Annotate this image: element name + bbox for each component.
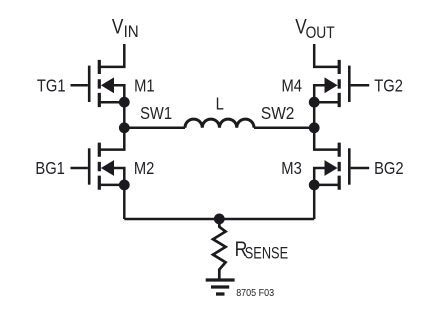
svg-text:SENSE: SENSE	[245, 245, 288, 263]
wire SW1 to inductor	[124, 127, 185, 130]
junction dot M4 source	[309, 97, 320, 108]
label RSENSE	[235, 237, 289, 263]
node VOUT label	[295, 15, 335, 43]
ground	[206, 280, 235, 294]
svg-text:M1: M1	[134, 76, 154, 96]
wire SW2 to M3 drain	[314, 128, 339, 150]
svg-text:SW1: SW1	[140, 104, 172, 124]
svg-text:TG2: TG2	[374, 76, 403, 96]
junction dot SW2	[309, 122, 320, 133]
svg-text:IN: IN	[124, 24, 139, 42]
svg-text:BG2: BG2	[374, 159, 404, 179]
wire VIN stub to M1 drain	[99, 44, 124, 67]
wire M1 source to SW1	[123, 102, 126, 128]
svg-text:BG1: BG1	[35, 159, 65, 179]
junction dot SW1	[119, 122, 130, 133]
junction dot M2 source	[119, 180, 130, 191]
transistor M1	[71, 60, 125, 107]
svg-text:M3: M3	[281, 159, 301, 179]
svg-text:OUT: OUT	[306, 24, 336, 43]
svg-text:TG1: TG1	[37, 76, 66, 96]
node VIN label	[112, 15, 139, 42]
transistor M3	[314, 143, 369, 190]
transistor M2	[71, 143, 125, 190]
wire inductor to SW2	[254, 127, 314, 130]
wire M2 source to bottom rail	[123, 185, 126, 219]
svg-text:M2: M2	[134, 159, 154, 179]
transistor M4	[314, 60, 369, 107]
wire VOUT stub to M4 drain	[314, 44, 339, 67]
resistor RSENSE	[213, 219, 226, 279]
inductor L	[185, 119, 254, 128]
svg-text:SW2: SW2	[261, 103, 295, 123]
wire bottom rail	[124, 218, 314, 221]
svg-text:M4: M4	[282, 76, 302, 96]
junction dot M1 source	[119, 97, 130, 108]
svg-text:L: L	[216, 94, 224, 114]
wire M3 source to bottom rail	[313, 185, 316, 219]
wire SW1 to M2 drain	[99, 128, 124, 150]
svg-text:8705 F03: 8705 F03	[236, 288, 274, 300]
junction dot M3 source	[309, 180, 320, 191]
svg-text:V: V	[112, 15, 123, 39]
wire M4 source to SW2	[313, 102, 316, 128]
junction dot rail center	[214, 214, 225, 225]
